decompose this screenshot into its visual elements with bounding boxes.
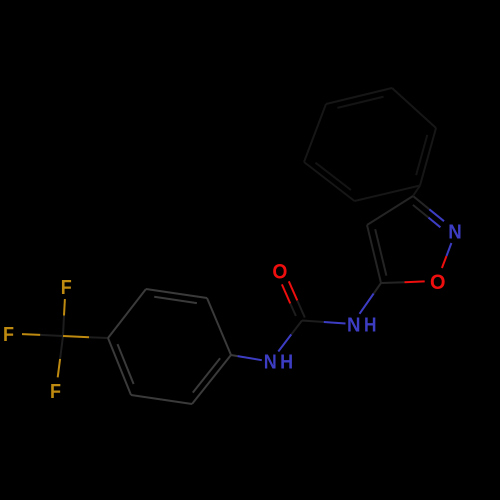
benzene edge A-B	[108, 338, 131, 395]
phenyl edge H4-H5	[326, 88, 392, 104]
C=O double bond	[289, 281, 298, 300]
svg-text:N: N	[347, 315, 361, 337]
bond CF3-ring half gold	[63, 336, 89, 337]
svg-text:O: O	[272, 260, 287, 283]
svg-text:F: F	[61, 277, 72, 299]
bond N2-C5	[360, 294, 374, 314]
svg-text:H: H	[280, 352, 293, 374]
bond C3-phenyl	[413, 186, 420, 197]
benzene edge E-F	[146, 289, 207, 298]
benzene edge F-A	[108, 289, 146, 338]
benzene edge D-E	[207, 298, 231, 355]
bond C3-C4	[367, 196, 413, 225]
bond C1-N2	[302, 321, 324, 323]
bond C-F left	[22, 333, 40, 336]
svg-text:O: O	[430, 271, 446, 294]
benzene edge B-C	[131, 395, 192, 404]
svg-text:N: N	[448, 222, 462, 244]
bond N1-C1	[278, 334, 291, 351]
bond N=C3 main	[429, 209, 444, 221]
bond N=C3 inner	[428, 218, 440, 228]
svg-text:N: N	[264, 352, 277, 374]
svg-text:F: F	[3, 324, 14, 346]
svg-text:F: F	[50, 381, 61, 403]
bond C5-O isoxazole	[381, 281, 405, 284]
bond C4=C5 main	[367, 225, 381, 283]
phenyl edge H5-H6	[392, 88, 436, 128]
phenyl edge H1-H2	[355, 186, 421, 202]
bond C4=C5 inner	[375, 229, 386, 275]
benzene edge C-D	[192, 355, 231, 404]
phenyl edge H6-H1	[420, 128, 436, 186]
svg-text:H: H	[364, 315, 377, 337]
benzene inner line A=B	[118, 344, 134, 384]
phenyl inner line H6-H1	[416, 135, 427, 175]
phenyl edge H2-H3	[304, 162, 355, 201]
phenyl inner line H2-H3	[316, 163, 351, 190]
bond O-N isoxazole	[442, 256, 447, 268]
bond C-F top	[63, 299, 66, 316]
benzene inner line C=D	[193, 358, 220, 392]
phenyl edge H3-H4	[304, 104, 326, 162]
bond ring-N1	[231, 355, 238, 356]
bond C-F bottom	[58, 359, 60, 378]
benzene inner line F=E	[154, 297, 197, 303]
phenyl inner line H4-H5	[337, 97, 383, 108]
